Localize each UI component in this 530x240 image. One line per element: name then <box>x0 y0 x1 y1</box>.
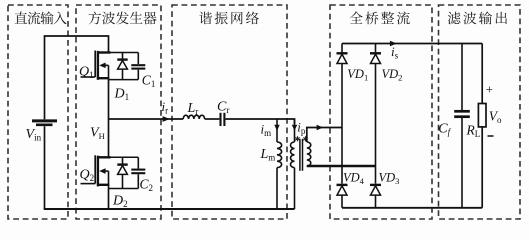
diode VD4 <box>337 183 348 208</box>
wire: Lr to Cr <box>205 118 220 120</box>
capacitor Cf (output filter) <box>454 44 470 208</box>
current arrow on secondary top lead <box>317 125 324 130</box>
diode VD1 <box>337 44 348 128</box>
wire: top rail from battery to Q1 drain <box>44 36 109 53</box>
capacitor Cr <box>221 113 225 126</box>
diode VD2 <box>370 44 381 128</box>
wire: Cr to transformer primary top <box>225 119 294 124</box>
wire: secondary top lead to bridge left leg <box>307 128 342 143</box>
polarity dot (asterisk) secondary <box>303 136 307 141</box>
stage box: square-wave generator section <box>76 5 161 219</box>
transformer core <box>300 139 303 171</box>
capacitor C2 (snubber) <box>131 157 145 188</box>
stage box: DC input section <box>8 5 68 219</box>
label: 全桥整流 (full-bridge rectifier) <box>350 11 410 24</box>
stage box: resonant network section <box>172 5 287 219</box>
inductor Lm (magnetizing) <box>277 129 282 209</box>
polarity dot (asterisk) primary <box>295 136 299 141</box>
battery Vin <box>32 36 57 209</box>
transistor Q2 (MOSFET, low side) <box>81 155 139 188</box>
wire: bridge right leg mid section <box>375 128 377 184</box>
current arrow is <box>390 41 397 47</box>
minus sign <box>488 135 494 137</box>
resistor RL (load) <box>478 44 486 208</box>
wire: Q1 source to mid node and down to Q2 drain <box>108 80 110 158</box>
capacitor C1 (snubber) <box>131 53 145 80</box>
current arrow ir <box>163 116 170 122</box>
transformer secondary winding <box>307 142 311 166</box>
label: 滤波输出 (filter output) <box>448 11 507 24</box>
wire: secondary bottom lead to bridge right leg <box>307 165 376 168</box>
diode D2 (antiparallel) <box>117 157 127 188</box>
label: 直流输入 (DC input) <box>15 11 67 24</box>
svg-text:+: + <box>486 82 493 97</box>
wire: Q2 source down to bottom rail <box>108 189 110 210</box>
transistor Q1 (MOSFET, high side) <box>81 51 139 80</box>
inductor Lr <box>183 115 204 119</box>
diode VD3 <box>370 183 381 208</box>
label: 谐振网络 (resonant network) <box>199 12 259 25</box>
stage box: filter output section <box>439 5 521 219</box>
diode D1 (antiparallel) <box>117 53 127 80</box>
wire: bridge top rail with output current is <box>342 43 482 45</box>
label: 方波发生器 (square-wave generator) <box>89 12 157 25</box>
wire: bridge bottom rail to output <box>342 207 482 209</box>
current arrow ip on primary lead <box>292 119 297 131</box>
stage box: full-bridge rectifier section <box>330 5 432 219</box>
current arrow im <box>274 119 279 131</box>
wire: bridge left leg mid section <box>341 128 343 184</box>
wire: bottom rail from battery to transformer primary <box>44 208 295 210</box>
wire: mid node to Lr with current arrow ir <box>109 118 184 120</box>
transformer T primary winding <box>291 129 295 209</box>
